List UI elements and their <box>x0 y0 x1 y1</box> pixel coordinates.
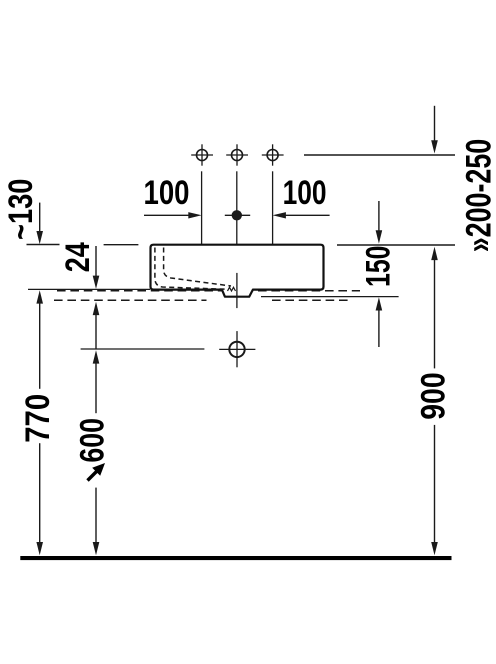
dashed line basin bottom level <box>57 290 360 292</box>
svg-text:150: 150 <box>360 246 398 288</box>
hole circle left <box>191 144 213 165</box>
drain circle <box>219 331 255 367</box>
dim line 900 <box>431 247 438 260</box>
drain level line right <box>261 296 399 298</box>
rim tick mid <box>104 244 139 246</box>
centre mark dot <box>225 214 250 216</box>
dim line 100 right <box>273 212 286 218</box>
basin inner wall dashed inner <box>164 248 231 287</box>
hole axis right <box>272 171 274 244</box>
svg-text:»200-250: »200-250 <box>460 139 496 253</box>
dim line 150 lower <box>376 297 383 310</box>
rim tick left <box>27 244 60 246</box>
trap height line <box>81 348 205 350</box>
svg-text:100: 100 <box>283 174 327 212</box>
overflow squiggle <box>228 287 236 291</box>
svg-text:24: 24 <box>59 242 97 272</box>
svg-text:100: 100 <box>144 174 190 212</box>
hole circle right <box>262 144 284 165</box>
dim line 770 <box>36 290 43 303</box>
dim line 24 lower <box>93 302 100 315</box>
basin centreline <box>236 273 238 308</box>
tap height reference line <box>304 154 455 156</box>
dim line 150 upper <box>378 201 380 232</box>
hole axis middle <box>236 171 238 244</box>
svg-text:900: 900 <box>415 372 453 420</box>
dashed line lower right <box>272 299 352 301</box>
washbasin outline <box>151 245 324 297</box>
svg-text:~130: ~130 <box>2 179 40 241</box>
rim line right <box>337 244 455 246</box>
basin bottom ext line <box>28 288 150 290</box>
svg-text:770: 770 <box>19 394 57 443</box>
floor line <box>20 556 451 560</box>
dim line 24 upper <box>95 246 97 278</box>
dim line 600 <box>93 350 100 363</box>
dim line ~130 <box>39 203 41 233</box>
hole axis left <box>201 171 203 244</box>
dashed line lower left <box>54 299 207 301</box>
dim line 200-250 upper <box>434 106 436 142</box>
dim line 100 left <box>144 214 190 216</box>
svg-text:600: 600 <box>74 418 112 463</box>
adjustable arrow symbol <box>88 463 106 481</box>
basin inner wall dashed outer <box>155 248 229 290</box>
hole circle middle <box>226 144 248 165</box>
